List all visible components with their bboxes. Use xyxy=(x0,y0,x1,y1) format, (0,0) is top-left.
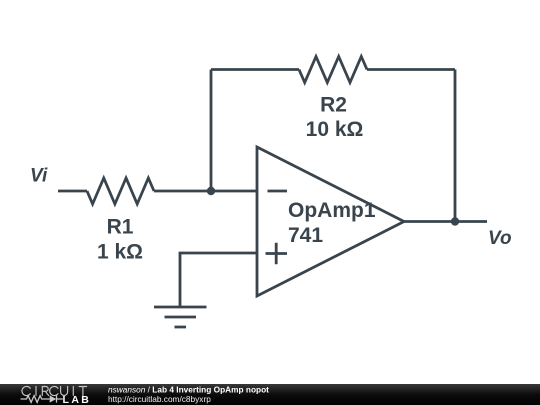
svg-text:OpAmp1: OpAmp1 xyxy=(288,199,376,222)
wire feedback top left xyxy=(211,68,299,71)
svg-text:R1: R1 xyxy=(107,216,134,239)
resistor R1 xyxy=(87,178,154,204)
svg-text:LAB: LAB xyxy=(63,394,92,405)
wire junction up to feedback xyxy=(210,70,213,192)
wire non-inverting input to ground xyxy=(180,253,257,307)
wire R1 to op-amp inverting input xyxy=(154,190,257,193)
footer bar xyxy=(0,384,540,405)
svg-text:R2: R2 xyxy=(320,94,347,117)
node output junction dot xyxy=(451,217,459,225)
svg-text:Vi: Vi xyxy=(30,166,48,187)
node junction dot at inverting input xyxy=(207,187,215,195)
wire feedback top right xyxy=(367,68,455,71)
resistor R2 xyxy=(299,57,367,83)
svg-text:10 kΩ: 10 kΩ xyxy=(306,118,364,141)
svg-text:http://circuitlab.com/c8byxrp: http://circuitlab.com/c8byxrp xyxy=(108,394,211,404)
wire Vi input lead xyxy=(58,190,87,193)
footer logo squiggle diode xyxy=(50,395,57,402)
footer logo squiggle resistor xyxy=(21,396,50,403)
op-amp OpAmp1 triangle xyxy=(257,147,404,296)
svg-text:741: 741 xyxy=(288,224,323,247)
footer logo CIRCUIT wordmark xyxy=(22,386,87,395)
svg-text:nswanson / Lab 4 Inverting OpA: nswanson / Lab 4 Inverting OpAmp nopot xyxy=(108,385,269,395)
wire feedback right vertical down to output xyxy=(454,70,457,222)
op-amp inverting input minus sign xyxy=(268,190,288,193)
op-amp non-inverting input plus sign xyxy=(266,243,288,264)
wire op-amp output xyxy=(404,220,487,223)
svg-text:1 kΩ: 1 kΩ xyxy=(97,241,143,264)
ground symbol xyxy=(154,307,207,327)
svg-text:Vo: Vo xyxy=(488,228,512,249)
